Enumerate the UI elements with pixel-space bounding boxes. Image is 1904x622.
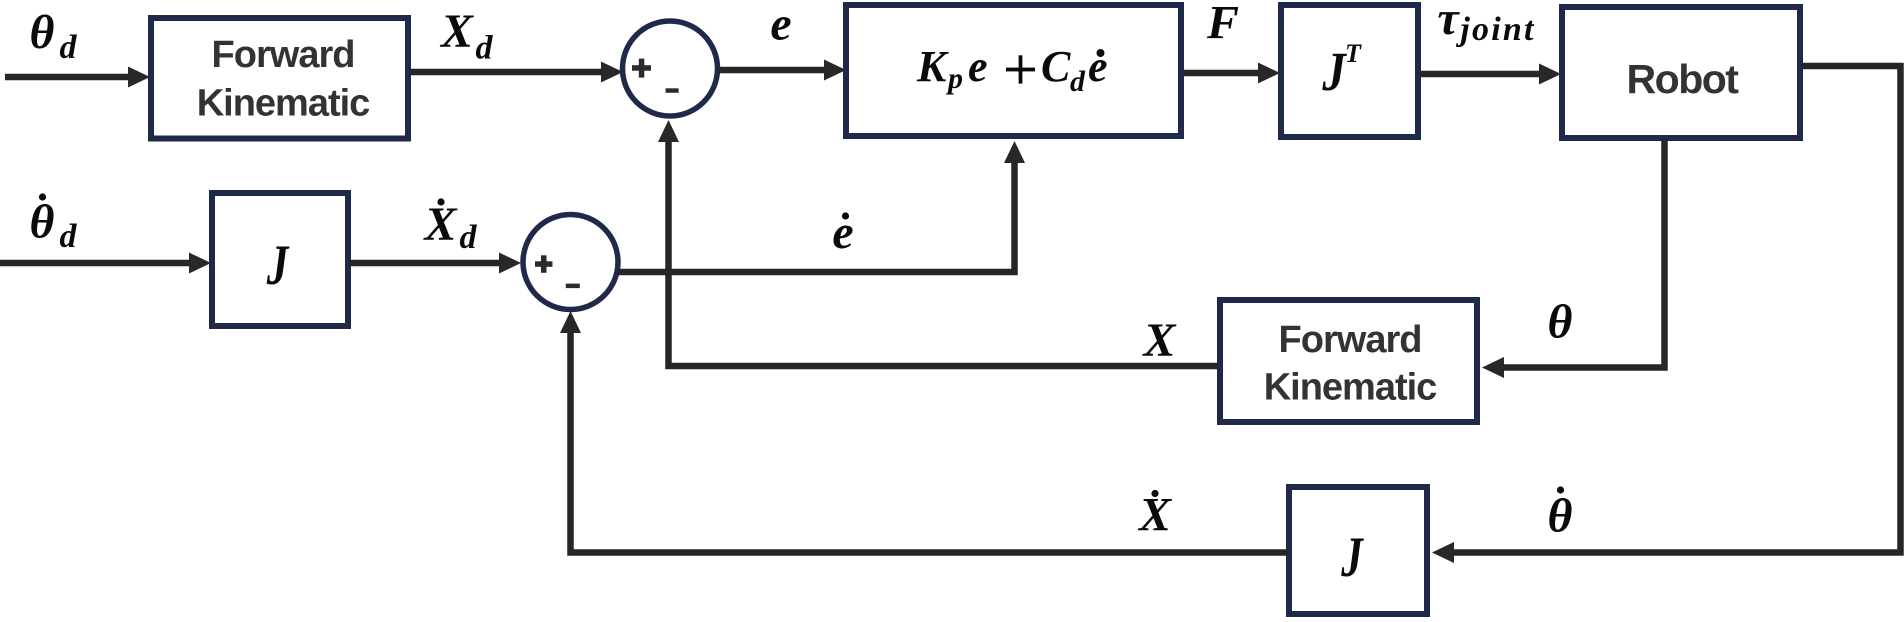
node X_d label [439, 5, 494, 67]
node tau_joint label [1437, 0, 1535, 48]
node theta label [1548, 296, 1573, 349]
wire Kp block to JT block (F signal) [1184, 63, 1280, 84]
summing junction S1 [623, 21, 718, 116]
svg-text:T: T [1345, 39, 1362, 68]
node theta_dot_d label [30, 193, 78, 255]
svg-text:Forward: Forward [212, 34, 355, 76]
svg-text:e: e [770, 0, 791, 51]
svg-text:θ: θ [1548, 490, 1573, 543]
wire Robot output to right edge and down to theta_dot feedback [1432, 66, 1901, 563]
svg-text:C: C [1041, 42, 1071, 91]
wire FK2 to summing junction S1 (X feedback) [658, 120, 1219, 366]
wire J to summing junction S2 (Xdot_d signal) [349, 253, 521, 274]
svg-text:d: d [1070, 65, 1086, 98]
svg-text:X: X [422, 198, 457, 251]
svg-text:Kinematic: Kinematic [1264, 367, 1437, 409]
block Forward Kinematic (feedback) [1220, 300, 1477, 422]
node Xdot label (bottom) [1137, 489, 1172, 542]
svg-text:Forward: Forward [1279, 319, 1422, 361]
svg-text:τ: τ [1437, 0, 1460, 45]
wire theta_d input arrow [5, 67, 150, 88]
svg-text:e: e [1088, 42, 1108, 91]
block J (row 2) [212, 193, 348, 326]
node X label [1141, 314, 1176, 367]
svg-text:F: F [1206, 0, 1239, 50]
svg-text:θ: θ [1548, 296, 1573, 349]
wire JT to Robot (tau_joint signal) [1419, 64, 1561, 85]
svg-text:Robot: Robot [1627, 56, 1740, 102]
block Robot [1562, 7, 1800, 138]
svg-text:K: K [916, 42, 949, 91]
wire theta_dot_d input arrow [0, 253, 211, 274]
wire S1 to Kp block (e signal) [717, 60, 846, 81]
block JT [1281, 5, 1418, 137]
svg-text:θ: θ [30, 6, 55, 59]
summing junction S2 [523, 215, 618, 310]
svg-text:e: e [968, 42, 988, 91]
node F label [1206, 0, 1239, 50]
svg-text:Kinematic: Kinematic [197, 83, 370, 125]
svg-text:d: d [60, 218, 78, 255]
wire J bottom to summing junction S2 (Xdot feedback) [560, 311, 1288, 553]
node edot label [832, 206, 853, 259]
node theta_d label [30, 6, 78, 66]
node Xdot_d label [422, 198, 477, 256]
node theta_dot label (bottom right) [1548, 486, 1573, 542]
svg-text:joint: joint [1455, 11, 1535, 48]
svg-text:J: J [1321, 43, 1347, 103]
wire S2 to Kp block bottom (edot signal) [617, 141, 1025, 272]
svg-text:X: X [1141, 314, 1176, 367]
svg-text:J: J [266, 233, 290, 296]
svg-text:d: d [476, 30, 494, 67]
svg-text:d: d [60, 29, 78, 66]
svg-text:p: p [945, 62, 963, 95]
svg-text:d: d [460, 219, 478, 256]
svg-text:X: X [439, 5, 474, 58]
block Kp e + Cd edot [846, 5, 1181, 136]
wire FK1 to summing junction S1 [411, 62, 623, 83]
svg-text:J: J [1340, 525, 1364, 588]
block Forward Kinematic (top) [151, 18, 408, 139]
node e label [770, 0, 791, 51]
wire Robot bottom to FK2 (theta signal) [1482, 139, 1665, 378]
svg-text:θ: θ [30, 196, 55, 249]
block J (bottom feedback) [1289, 487, 1427, 614]
